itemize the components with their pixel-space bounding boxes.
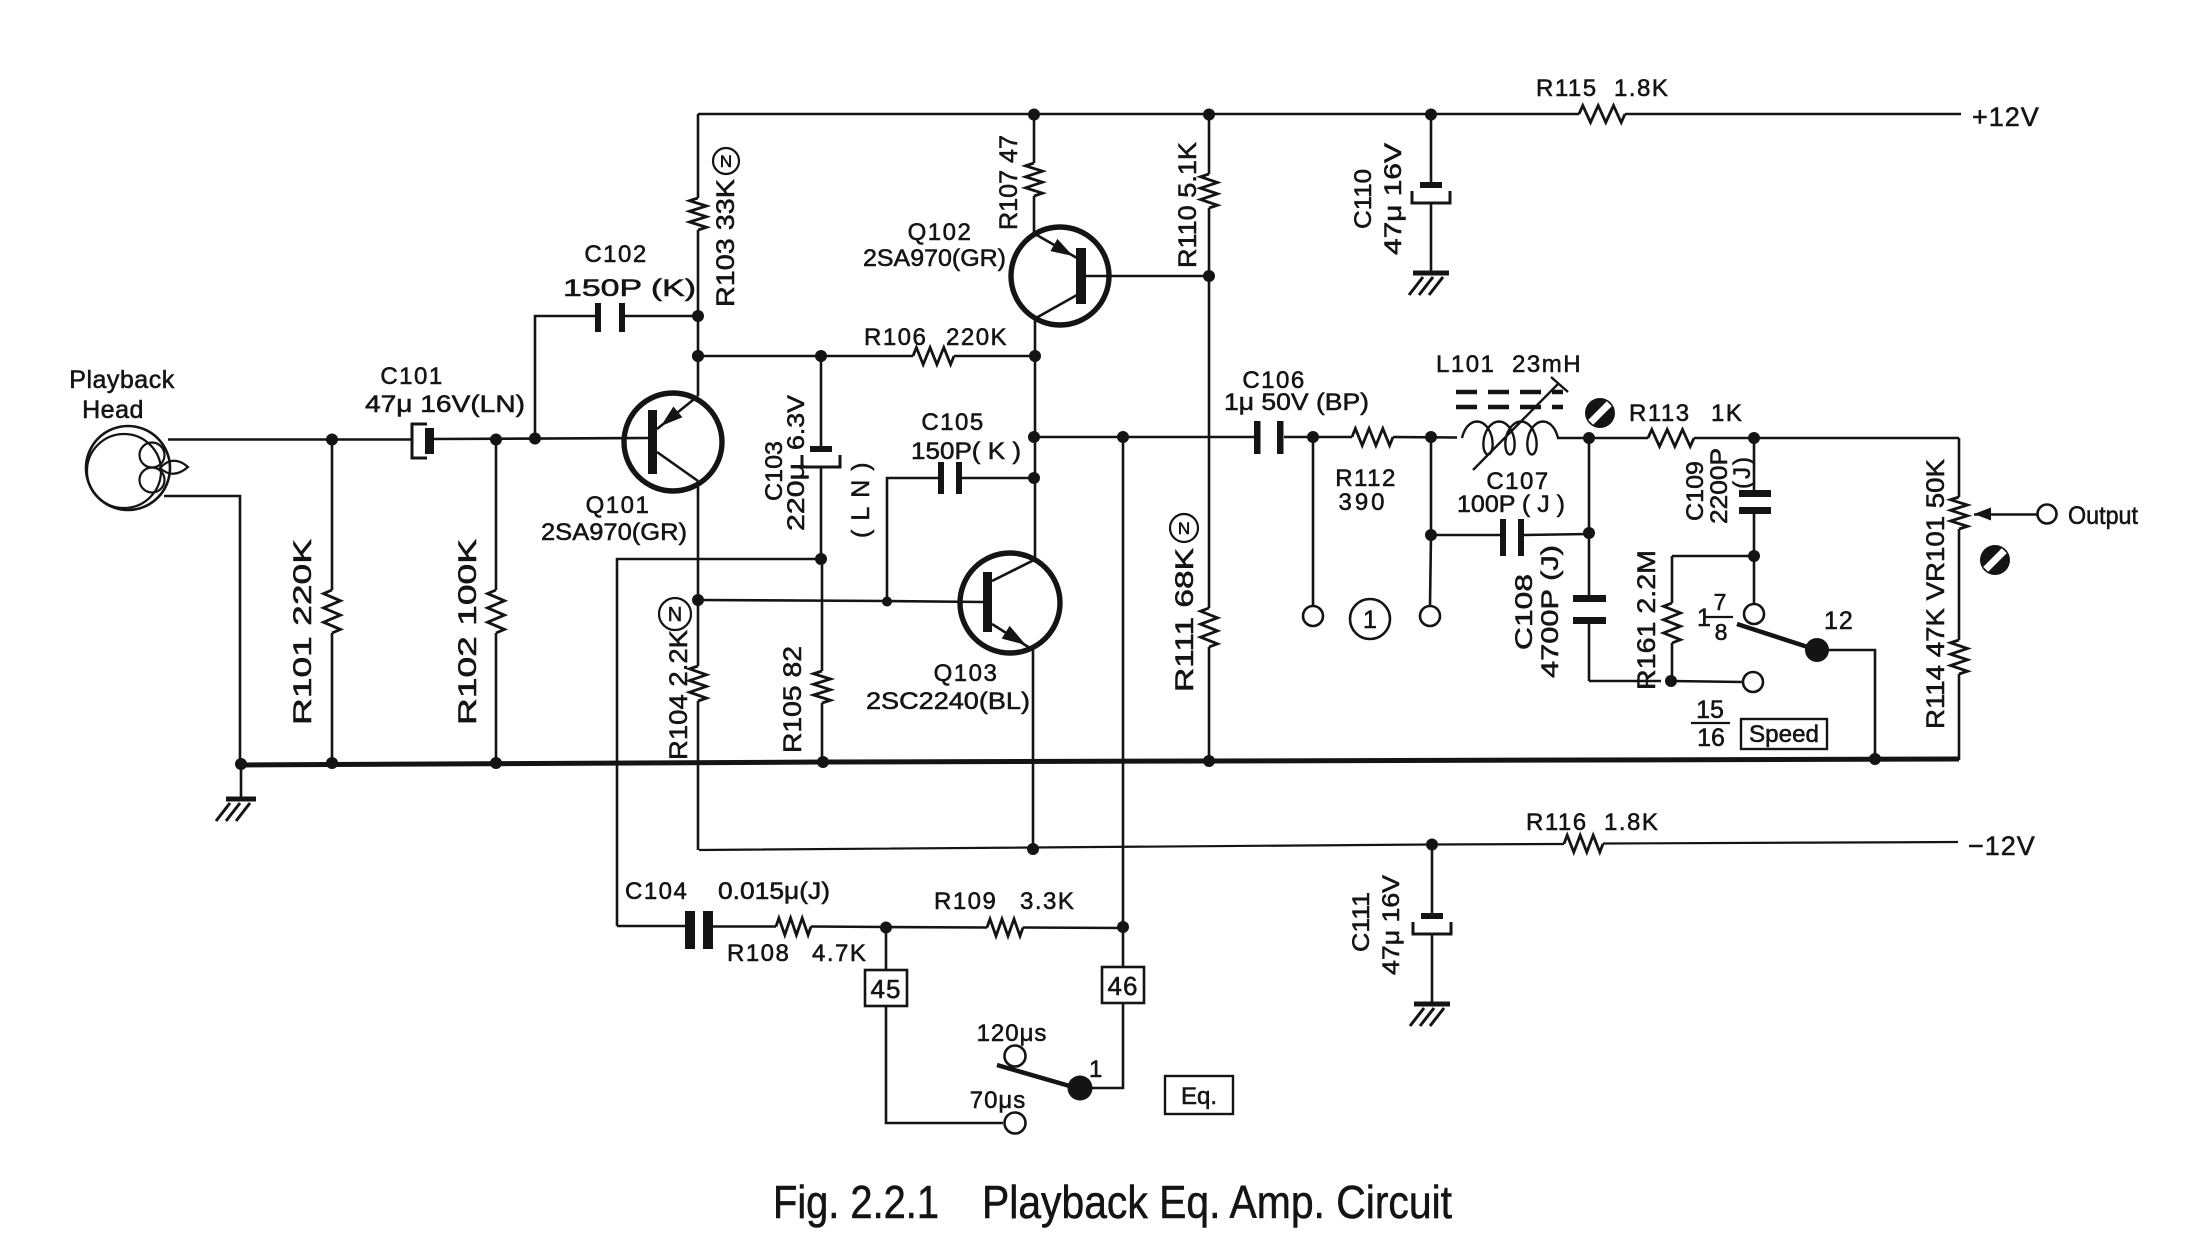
svg-text:R116: R116 (1526, 809, 1588, 836)
wire head bottom to ground bus (164, 496, 240, 763)
resistor R111 (1171, 276, 1218, 761)
capacitor C110 (1350, 115, 1450, 271)
svg-text:Playback Eq. Amp. Circuit: Playback Eq. Amp. Circuit (982, 1176, 1452, 1228)
svg-text:C109: C109 (1682, 461, 1709, 521)
wire Q103 emitter down (1032, 650, 1035, 850)
switch Speed contact 15/16 (1743, 672, 1763, 692)
wire base row y601 (698, 600, 983, 602)
svg-text:6.3V: 6.3V (783, 395, 810, 450)
node C106 right (1307, 431, 1319, 443)
playback head (69, 366, 188, 510)
svg-text:R102 100K: R102 100K (454, 539, 482, 725)
terminal below C106 (1303, 437, 1323, 626)
svg-text:R109: R109 (934, 888, 997, 915)
svg-text:0.015μ(J): 0.015μ(J) (718, 878, 830, 905)
svg-text:R114 47K VR101 50K: R114 47K VR101 50K (1922, 459, 1950, 729)
svg-text:Q103: Q103 (934, 660, 999, 687)
node R102 top (490, 434, 502, 446)
resistor R114 (1951, 640, 1968, 760)
wire -12V rail (699, 842, 1958, 850)
node R101 bottom (326, 757, 338, 769)
node C102 branch (529, 433, 541, 445)
caption (773, 1176, 1452, 1228)
transistor Q103 (866, 553, 1060, 715)
svg-text:R161 2.2M: R161 2.2M (1633, 550, 1661, 690)
svg-text:R108: R108 (727, 940, 790, 967)
node R106 right (1029, 350, 1041, 362)
resistor R104 (665, 600, 707, 850)
svg-text:R113: R113 (1629, 400, 1691, 427)
svg-text:120μs: 120μs (977, 1020, 1048, 1047)
resistor R112 (1335, 429, 1397, 517)
svg-text:C104: C104 (625, 878, 688, 905)
svg-text:Eq.: Eq. (1181, 1083, 1217, 1110)
svg-text:+12V: +12V (1972, 102, 2040, 132)
svg-text:Speed: Speed (1749, 721, 1819, 748)
wire signal row right (1034, 437, 1959, 438)
node R109 right / 46 (1117, 921, 1129, 933)
node C103 top (815, 350, 827, 362)
resistor R105 (779, 559, 831, 762)
node R161 bottom (1665, 675, 1677, 687)
resistor R116 (1526, 809, 1659, 852)
N mark (R111) (1170, 514, 1198, 542)
svg-text:390: 390 (1338, 489, 1387, 516)
svg-text:12: 12 (1824, 607, 1854, 635)
svg-text:R115: R115 (1536, 75, 1598, 102)
resistor R107 (995, 114, 1043, 234)
svg-text:R110 5.1K: R110 5.1K (1174, 142, 1202, 268)
wire emitter row y558 (617, 559, 821, 926)
svg-text:4.7K: 4.7K (812, 940, 867, 967)
connector 45 (865, 927, 907, 1006)
label 1 7/8 (1697, 589, 1733, 645)
node Q101 collector / base row (692, 594, 704, 606)
switch Eq arm (997, 1065, 1080, 1089)
svg-text:100P ( J ): 100P ( J ) (1457, 491, 1565, 518)
screw mark (VR101) (1980, 545, 2010, 575)
node R111 bottom (1203, 755, 1215, 767)
N mark (R103) (713, 148, 739, 174)
svg-text:1: 1 (1089, 1056, 1102, 1083)
transistor Q101 (541, 393, 722, 546)
inductor L101 (1436, 351, 1582, 470)
svg-text:47μ 16V: 47μ 16V (1378, 875, 1405, 975)
switch Speed pivot 12 (1805, 638, 1829, 662)
svg-text:1μ 50V (BP): 1μ 50V (BP) (1224, 389, 1369, 416)
svg-text:C101: C101 (380, 363, 443, 390)
capacitor C111 (1348, 844, 1451, 1002)
svg-text:1: 1 (1363, 606, 1377, 634)
svg-text:2SA970(GR): 2SA970(GR) (863, 245, 1006, 272)
svg-text:47μ 16V(LN): 47μ 16V(LN) (365, 391, 525, 418)
node C107 right (1583, 527, 1595, 539)
svg-text:L101: L101 (1436, 351, 1495, 378)
node bus left end (235, 758, 247, 770)
node L101 left (1425, 431, 1437, 443)
label Eq box (1165, 1076, 1233, 1114)
node R110 top (1203, 109, 1215, 121)
capacitor C108 (1511, 545, 1606, 681)
label 15/16 (1691, 696, 1730, 752)
node R101 top (326, 434, 338, 446)
capacitor C109 (1682, 438, 1771, 556)
node R108/R109/45 (880, 922, 892, 934)
svg-text:46: 46 (1108, 971, 1139, 1001)
power label -12V (1968, 831, 2036, 861)
wire C101 to Q101 base (434, 438, 648, 439)
wire 46 to Eq pivot (1092, 1003, 1123, 1088)
capacitor C104 (617, 878, 830, 949)
wire R106 row (698, 355, 1035, 358)
resistor R103 (690, 114, 741, 396)
svg-text:C105: C105 (921, 409, 984, 436)
wire C108 bottom to R161 (1589, 680, 1661, 683)
svg-text:Q101: Q101 (586, 492, 651, 519)
switch Eq contact 120us (977, 1020, 1048, 1067)
terminal Output (2038, 502, 2139, 530)
svg-text:7: 7 (1714, 589, 1727, 615)
svg-text:4700P (J): 4700P (J) (1537, 545, 1564, 678)
node R113 right (1748, 432, 1760, 444)
label Speed box (1741, 719, 1827, 749)
svg-text:N: N (1178, 519, 1190, 538)
resistor R110 (1174, 114, 1218, 276)
svg-text:C110: C110 (1350, 169, 1377, 229)
svg-text:Playback: Playback (69, 366, 174, 394)
wire switch to bus (1827, 650, 1875, 759)
node L101 right (1583, 432, 1595, 444)
wire head top to C101 (168, 438, 412, 441)
wire branch to R109 (1122, 437, 1125, 928)
svg-text:(LN): (LN) (847, 453, 875, 538)
terminal circled 1 (1350, 599, 1390, 639)
wire R161 bottom to contact (1671, 681, 1743, 682)
wire +12V rail (698, 113, 1961, 116)
node R105 bottom (817, 756, 829, 768)
svg-text:47μ 16V: 47μ 16V (1380, 143, 1407, 255)
wire 45 to 70us contact (886, 1006, 1003, 1123)
svg-text:R106: R106 (864, 324, 927, 351)
node switch wire at bus (1869, 753, 1881, 765)
svg-text:R112: R112 (1335, 465, 1397, 492)
resistor R161 (1633, 550, 1754, 690)
capacitor C106 (1224, 367, 1369, 454)
svg-text:R101 220K: R101 220K (289, 539, 317, 725)
wire Q102 collector down (1035, 318, 1036, 561)
resistor R109 (886, 888, 1123, 936)
svg-text:C111: C111 (1348, 892, 1375, 952)
node C103 bottom (815, 553, 827, 565)
connector 46 (1102, 928, 1144, 1003)
wire C102 branch (535, 316, 595, 438)
svg-text:1.8K: 1.8K (1604, 809, 1659, 836)
potentiometer VR101 (1922, 459, 2038, 729)
svg-text:150P (K): 150P (K) (563, 275, 696, 302)
node C111 top (1426, 839, 1438, 851)
svg-text:C108: C108 (1511, 574, 1538, 650)
node R107 top (1028, 109, 1040, 121)
label 12 (1824, 607, 1854, 635)
node C109 bottom (1748, 550, 1760, 562)
svg-text:R111 68K: R111 68K (1171, 548, 1199, 692)
svg-text:Output: Output (2068, 502, 2138, 530)
svg-text:23mH: 23mH (1512, 351, 1582, 378)
N mark (R104) (659, 598, 691, 630)
node Q101 emitter / R106 (692, 350, 704, 362)
node C102 right (692, 310, 704, 322)
svg-text:N: N (668, 604, 682, 626)
screw mark (L101) (1585, 398, 1615, 428)
svg-text:(J): (J) (1729, 455, 1756, 489)
svg-text:220μ: 220μ (783, 463, 810, 531)
transistor Q102 (863, 219, 1109, 325)
capacitor C101 (365, 363, 525, 458)
svg-text:−12V: −12V (1968, 831, 2036, 861)
svg-text:220K: 220K (946, 324, 1008, 351)
node Q102 emitter junction (1203, 270, 1215, 282)
ground (C110) (1409, 273, 1449, 295)
wire L101 right down (1588, 438, 1591, 595)
wire output right branch (1958, 438, 1961, 497)
node C105 right (1028, 472, 1040, 484)
svg-text:150P( K ): 150P( K ) (911, 438, 1021, 465)
resistor R102 (454, 440, 505, 763)
node C110 top (1425, 109, 1437, 121)
wire Q102 base to R110 (1086, 275, 1209, 278)
node signal/R109 branch (1117, 431, 1129, 443)
switch Eq pivot 1 (1068, 1056, 1103, 1101)
svg-text:70μs: 70μs (970, 1087, 1027, 1114)
node base row / C105 (882, 597, 892, 607)
resistor R101 (289, 439, 341, 763)
svg-text:Q102: Q102 (908, 219, 973, 246)
capacitor C107 (1431, 468, 1589, 556)
wire Q101 collector down (697, 481, 700, 600)
svg-text:1.8K: 1.8K (1614, 75, 1669, 102)
svg-text:2SA970(GR): 2SA970(GR) (541, 519, 687, 546)
svg-text:C102: C102 (584, 241, 647, 268)
terminal below C107 left (1420, 606, 1440, 626)
node signal/collector (1028, 431, 1040, 443)
wire ground bus (241, 759, 1959, 765)
svg-text:R104 2.2K: R104 2.2K (665, 630, 693, 760)
node R102 bottom (490, 757, 502, 769)
capacitor C102 (563, 241, 698, 332)
node C107 left (1425, 529, 1437, 541)
resistor R115 (1536, 75, 1669, 123)
svg-text:N: N (720, 152, 732, 171)
svg-text:8: 8 (1715, 619, 1728, 645)
switch Speed contact 7/8 (1744, 556, 1764, 624)
capacitor C105 (887, 409, 1034, 601)
svg-text:45: 45 (871, 974, 902, 1004)
svg-text:R107 47: R107 47 (995, 135, 1023, 230)
ground (head) (216, 765, 256, 821)
svg-text:Head: Head (82, 396, 144, 424)
svg-text:2SC2240(BL): 2SC2240(BL) (866, 688, 1030, 715)
node Q103 emitter at -12V (1027, 843, 1039, 855)
svg-text:Fig. 2.2.1: Fig. 2.2.1 (773, 1176, 939, 1228)
svg-text:15: 15 (1696, 696, 1724, 724)
ground (C111) (1410, 1004, 1450, 1026)
capacitor C103 (761, 356, 875, 559)
wire L101 left down (1430, 437, 1431, 606)
svg-text:1K: 1K (1711, 400, 1743, 427)
power label +12V (1972, 102, 2040, 132)
svg-text:16: 16 (1697, 724, 1725, 752)
resistor R106 (864, 324, 1008, 365)
svg-text:3.3K: 3.3K (1020, 888, 1075, 915)
svg-text:R105 82: R105 82 (779, 646, 807, 753)
resistor R113 (1629, 400, 1743, 447)
node R106 left (692, 350, 704, 362)
switch Speed arm (1737, 624, 1817, 650)
resistor R108 (727, 918, 886, 967)
svg-text:R103 33K: R103 33K (712, 179, 740, 307)
switch Eq contact 70us (970, 1087, 1027, 1134)
